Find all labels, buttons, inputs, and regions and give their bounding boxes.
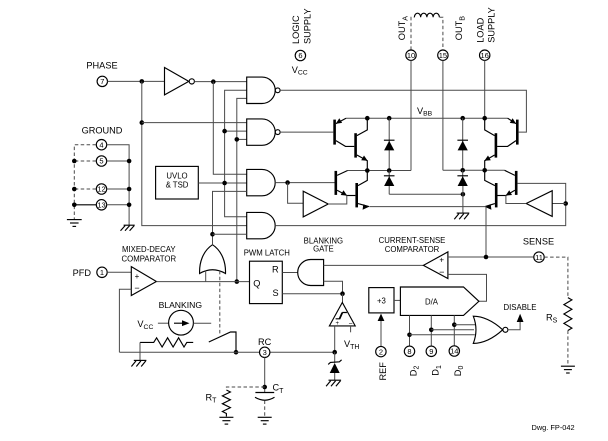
wire comparator - input to D/A bbox=[448, 274, 487, 301]
capacitor CT bbox=[255, 392, 274, 394]
op-amp threshold comparator (hysteresis) bbox=[329, 303, 355, 326]
switch SW1 blade bbox=[209, 332, 236, 352]
pin 10 bbox=[406, 50, 416, 60]
svg-text:RT: RT bbox=[206, 392, 218, 404]
wire pin13 to bus bbox=[74, 204, 96, 206]
wire dashed RS to ground bbox=[567, 331, 569, 367]
svg-text:VTH: VTH bbox=[344, 339, 359, 351]
OR gate G5 (points up) bbox=[200, 245, 226, 274]
wire AND3 output down to left buffer input bbox=[288, 183, 304, 204]
wire pin10 down to OUTA node bbox=[410, 60, 412, 170]
svg-text:9: 9 bbox=[429, 347, 433, 356]
wire OR out branch to AND4 bottom input bbox=[213, 233, 247, 235]
svg-text:OUTA: OUTA bbox=[397, 16, 409, 40]
svg-text:13: 13 bbox=[97, 201, 105, 210]
svg-text:PFD: PFD bbox=[73, 268, 92, 278]
pin 1 bbox=[97, 267, 107, 277]
diode D1 (upper left clamp) bbox=[388, 118, 390, 170]
wire OR right input leg dashed (mixed decay control to switch) bbox=[219, 271, 221, 334]
junction clamp anode node bbox=[461, 192, 466, 197]
wire pin1 to comparator + input bbox=[107, 271, 131, 273]
earth ground under RT bbox=[219, 417, 233, 424]
svg-text:PWM LATCH: PWM LATCH bbox=[244, 248, 290, 257]
transistor Q2 (left source NPN) bbox=[354, 133, 357, 157]
wire dashed OUTB to inductor bbox=[440, 17, 443, 50]
svg-text:10: 10 bbox=[407, 51, 415, 60]
earth ground under CT bbox=[258, 417, 272, 424]
buffer left driver bbox=[303, 191, 328, 217]
svg-text:11: 11 bbox=[535, 253, 543, 262]
wire sense rail down to comparator + bbox=[485, 207, 487, 257]
junction RT/CT node bbox=[262, 385, 267, 390]
wire pin5 to right bus bbox=[107, 160, 129, 162]
svg-text:RC: RC bbox=[258, 337, 272, 347]
junction PWM bus NAND2 bbox=[235, 137, 240, 142]
svg-text:GROUND: GROUND bbox=[82, 126, 123, 136]
pin 4 bbox=[96, 140, 106, 150]
junction S node bbox=[340, 291, 345, 296]
earth ground under left bus bbox=[67, 220, 82, 227]
svg-text:4: 4 bbox=[99, 140, 103, 149]
transistor Q6 (right source NPN) bbox=[495, 133, 498, 157]
wire VBB rail bbox=[346, 117, 508, 119]
wire latch R input from blanking gate bbox=[282, 272, 297, 274]
wire PWM bus vertical (latch Q to NAND1/NAND2) bbox=[237, 98, 247, 281]
junction VBB diode D3 bbox=[460, 116, 465, 121]
junction OR output to AND4 bbox=[210, 232, 215, 237]
svg-text:D1: D1 bbox=[431, 365, 443, 376]
wire pin15 down to OUTB node bbox=[442, 60, 444, 170]
wire pin12 to right bus bbox=[107, 188, 129, 190]
gate NAND2 bbox=[247, 119, 276, 145]
op-amp mixed-decay comparator bbox=[131, 267, 156, 296]
junction right bus pin5 bbox=[127, 159, 132, 164]
pin 5 bbox=[96, 156, 106, 166]
wire lower clamp anode rail to right bbox=[389, 193, 463, 195]
wire pin13 to right bus bbox=[107, 204, 129, 206]
wire right buffer output to Q8 base bbox=[506, 196, 526, 204]
junction right rail buffer input bbox=[563, 201, 568, 206]
svg-text:2: 2 bbox=[379, 347, 383, 356]
PWM latch block bbox=[250, 261, 283, 303]
junction VBB diode D1 bbox=[387, 116, 392, 121]
earth ground under RS bbox=[561, 366, 575, 373]
wire comparator output to latch Q / OR leg bbox=[156, 281, 249, 283]
svg-text:VCC: VCC bbox=[137, 319, 153, 331]
wire AND3 output to T3 base bbox=[275, 182, 334, 184]
wire resistor left lead to ground bbox=[139, 342, 141, 360]
wire pin7 to inverter bbox=[108, 80, 165, 82]
wire NAND1 output to right bridge T5 base bbox=[280, 90, 526, 132]
diode D3 (upper right clamp) bbox=[462, 118, 464, 170]
svg-text:5: 5 bbox=[99, 157, 103, 166]
UVLO & TSD block bbox=[156, 166, 199, 199]
wire emitter sense rail bbox=[369, 206, 486, 208]
svg-text:16: 16 bbox=[481, 51, 489, 60]
svg-text:15: 15 bbox=[439, 51, 447, 60]
svg-text:SENSE: SENSE bbox=[523, 237, 554, 247]
pin 14 bbox=[449, 346, 459, 356]
wire dashed left bus for ground pins bbox=[74, 145, 96, 220]
junction sense node bbox=[484, 255, 489, 260]
resistor R1 (blanking) bbox=[140, 338, 193, 347]
wire dashed CT to ground bbox=[264, 401, 266, 418]
junction UVLO bus AND3 bbox=[222, 181, 227, 186]
junction bus pin13 bbox=[72, 203, 77, 208]
wire pin16 down to VBB rail bbox=[484, 60, 486, 118]
wire PWM bus to NAND2 bottom input bbox=[237, 138, 247, 140]
wire RC rail bbox=[119, 351, 334, 353]
buffer right driver (points left) bbox=[526, 191, 552, 217]
wire phase to NAND2 top input bbox=[142, 122, 247, 124]
svg-text:+: + bbox=[439, 256, 444, 265]
wire clamp node to chassis ground bbox=[462, 186, 464, 213]
junction right bus pin12 bbox=[127, 187, 132, 192]
svg-text:DISABLE: DISABLE bbox=[504, 303, 537, 312]
wire D0 bit line bbox=[453, 315, 455, 345]
svg-text:D2: D2 bbox=[408, 366, 420, 377]
svg-text:VBB: VBB bbox=[417, 106, 433, 118]
svg-text:OUTB: OUTB bbox=[454, 16, 466, 40]
svg-text:SUPPLY: SUPPLY bbox=[303, 8, 313, 44]
wire blanking gate top input from current-sense comparator bbox=[324, 264, 424, 266]
transistor Q3 (left sink NPN driver) bbox=[334, 171, 337, 195]
wire AND4 output rail to right side (T7 base / right buffer) bbox=[275, 183, 566, 225]
svg-text:VCC: VCC bbox=[292, 65, 308, 77]
chassis ground blanking resistor bbox=[131, 360, 146, 366]
pin 11 bbox=[534, 252, 544, 262]
junction phase to NAND2 bbox=[140, 120, 145, 125]
junction PWM bus at Q row bbox=[235, 279, 240, 284]
wire OR left input leg from Q row bbox=[205, 271, 207, 282]
wire UVLO bus vertical bbox=[225, 90, 247, 217]
pin 13 bbox=[96, 200, 106, 210]
transistor Q8 (right sink NPN output) bbox=[495, 183, 498, 207]
wire comparator + input to sense node bbox=[448, 256, 534, 258]
wire D2 bit line bbox=[409, 315, 411, 346]
svg-text:+3: +3 bbox=[377, 297, 386, 306]
chassis ground clamp diodes bbox=[454, 213, 469, 219]
junction AND3 output bbox=[285, 180, 290, 185]
wire Vcc to current source bbox=[158, 322, 169, 324]
svg-text:6: 6 bbox=[298, 51, 302, 60]
wire OR output up to AND4 bottom input bbox=[213, 191, 247, 244]
wire dashed OUTA to inductor bbox=[411, 17, 414, 50]
svg-text:+: + bbox=[135, 272, 140, 281]
svg-text:GATE: GATE bbox=[313, 245, 334, 254]
svg-text:PHASE: PHASE bbox=[86, 60, 117, 70]
svg-text:8: 8 bbox=[407, 347, 411, 356]
transistor Q1 (left source PNP) bbox=[333, 120, 336, 145]
wire S node down to threshold comparator bbox=[342, 294, 344, 303]
resistor RT bbox=[222, 390, 230, 416]
wire +3 to D/A bbox=[394, 299, 400, 301]
zener diode VR1 bbox=[334, 352, 336, 363]
chassis ground under right bus bbox=[121, 225, 135, 231]
wire comparator minus feedback down to RC rail bbox=[119, 289, 131, 352]
junction right bus pin13 bbox=[127, 203, 132, 208]
diode D4 (lower right clamp) bbox=[462, 170, 464, 186]
wire blanking gate bottom input from S node bbox=[324, 281, 343, 294]
junction VBB pin16 bbox=[482, 116, 487, 121]
svg-text:RS: RS bbox=[546, 312, 558, 324]
transistor Q7 (right sink NPN driver) bbox=[515, 171, 518, 195]
svg-text:BLANKING: BLANKING bbox=[159, 300, 203, 310]
junction VBB T2 collector bbox=[365, 116, 370, 121]
transistor Q4 (left sink NPN output) bbox=[355, 183, 358, 207]
junction UVLO bus NAND2 bbox=[222, 129, 227, 134]
wire inverted phase down to AND3 top input bbox=[213, 82, 246, 175]
junction phase node bbox=[140, 79, 145, 84]
inductor load winding bbox=[414, 13, 439, 17]
wire dashed pin5 to bus bbox=[74, 160, 96, 162]
svg-text:3: 3 bbox=[263, 348, 267, 357]
svg-text:D/A: D/A bbox=[425, 297, 439, 306]
wire NOR output to DISABLE arrow bbox=[508, 321, 520, 330]
current source I1 bbox=[169, 310, 194, 335]
node OUT A bbox=[348, 170, 411, 172]
wire threshold - input stub bbox=[350, 326, 352, 332]
gate blanking AND (points left) bbox=[298, 260, 324, 286]
svg-text:COMPARATOR: COMPARATOR bbox=[122, 254, 177, 263]
gate AND3 bbox=[247, 169, 276, 195]
resistor RS bbox=[564, 298, 572, 331]
svg-text:LOAD: LOAD bbox=[476, 17, 486, 42]
op-amp current-sense comparator (points left) bbox=[423, 252, 448, 279]
junction bus pin5 bbox=[72, 159, 77, 164]
svg-text:S: S bbox=[273, 288, 279, 298]
pin 2 bbox=[376, 346, 386, 356]
wire REF arrow into +3 bbox=[380, 320, 382, 347]
wire right buffer input bbox=[552, 203, 565, 205]
wire inverter output to NAND1 top input bbox=[194, 81, 246, 83]
pin 15 bbox=[438, 50, 448, 60]
svg-text:12: 12 bbox=[97, 185, 105, 194]
gate NAND1 bbox=[247, 77, 276, 103]
svg-text:1: 1 bbox=[100, 268, 104, 277]
pin 16 bbox=[480, 50, 490, 60]
svg-text:Dwg. FP-042: Dwg. FP-042 bbox=[532, 423, 575, 432]
wire dashed pin12 to bus bbox=[74, 188, 96, 190]
wire D1 bit line bbox=[430, 315, 432, 346]
wire dashed to RT bbox=[226, 387, 264, 390]
wire threshold + input to RC rail bbox=[334, 326, 336, 352]
+3 divider block bbox=[369, 288, 394, 313]
wire latch S input bbox=[282, 293, 342, 295]
transistor Q5 (right source PNP) bbox=[516, 120, 519, 145]
svg-text:−: − bbox=[134, 283, 139, 293]
svg-text:CT: CT bbox=[273, 383, 285, 395]
pin 7 bbox=[97, 76, 107, 86]
wire UVLO bus to NAND2 middle input bbox=[225, 130, 247, 132]
svg-text:CURRENT-SENSE: CURRENT-SENSE bbox=[379, 236, 446, 245]
junction RC rail / zener bbox=[332, 350, 337, 355]
svg-text:LOGIC: LOGIC bbox=[291, 15, 301, 44]
wire current source output bbox=[193, 322, 211, 324]
inverter U1 bbox=[165, 68, 189, 95]
gate AND4 bbox=[247, 212, 275, 238]
svg-text:7: 7 bbox=[100, 77, 104, 86]
wire left buffer output to Q4 base bbox=[328, 196, 347, 205]
pin 8 bbox=[404, 346, 414, 356]
pin 3 bbox=[260, 347, 270, 357]
chassis ground under zener bbox=[326, 380, 341, 386]
wire dashed pin11 to RS bbox=[544, 257, 568, 298]
svg-text:MIXED-DECAY: MIXED-DECAY bbox=[122, 245, 176, 254]
svg-text:−: − bbox=[439, 267, 444, 277]
svg-text:SUPPLY: SUPPLY bbox=[487, 7, 497, 43]
svg-text:UVLO: UVLO bbox=[166, 172, 187, 181]
pin 9 bbox=[426, 346, 436, 356]
gate NOR disable bbox=[473, 316, 502, 343]
wire right bus for ground pins bbox=[107, 145, 129, 226]
pin 6 bbox=[295, 50, 305, 60]
wire pin3 down to CT bbox=[264, 358, 266, 393]
svg-text:& TSD: & TSD bbox=[166, 181, 189, 190]
wire phase vertical down to AND4 middle input bbox=[142, 81, 247, 225]
wire UVLO output to AND3 middle input bbox=[198, 182, 246, 184]
svg-text:COMPARATOR: COMPARATOR bbox=[385, 245, 440, 254]
svg-text:R: R bbox=[272, 265, 279, 275]
wire NAND2 output to T1 base bbox=[280, 131, 333, 133]
svg-text:14: 14 bbox=[450, 347, 458, 356]
diode D2 (lower left clamp) bbox=[388, 171, 390, 195]
svg-text:D0: D0 bbox=[453, 366, 465, 377]
pin 12 bbox=[96, 184, 106, 194]
svg-text:Q: Q bbox=[253, 278, 260, 288]
junction bus pin12 bbox=[72, 187, 77, 192]
svg-text:REF: REF bbox=[378, 362, 388, 381]
svg-text:+: + bbox=[336, 321, 340, 327]
junction inverted-phase node bbox=[211, 79, 216, 84]
D/A converter block bbox=[400, 287, 479, 315]
node OUT B bbox=[443, 169, 505, 171]
junction switch to RC rail bbox=[234, 350, 239, 355]
